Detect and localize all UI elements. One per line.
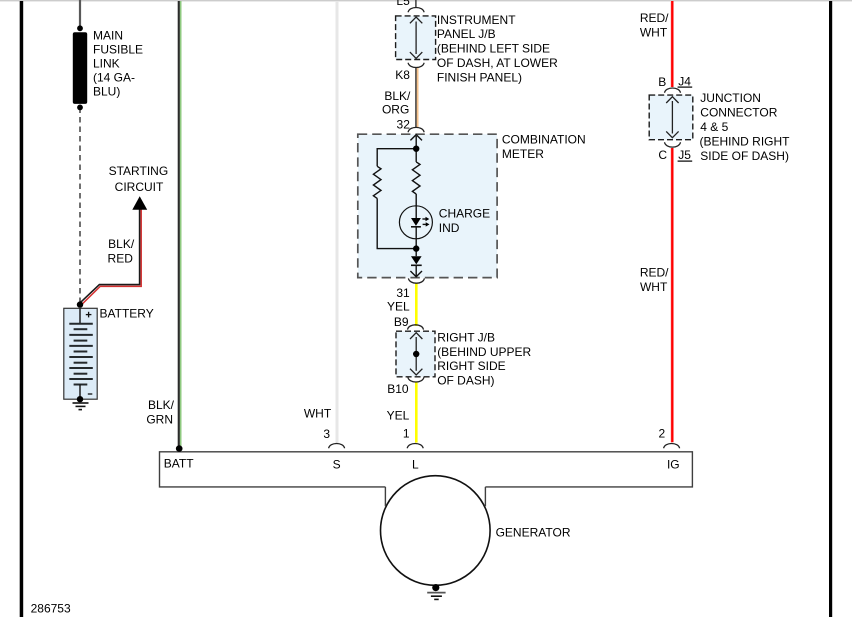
svg-text:METER: METER bbox=[502, 147, 544, 161]
svg-text:C: C bbox=[658, 148, 667, 162]
svg-text:L: L bbox=[412, 457, 419, 471]
svg-text:OF DASH): OF DASH) bbox=[437, 374, 494, 388]
svg-text:(BEHIND UPPER: (BEHIND UPPER bbox=[437, 345, 531, 359]
svg-text:BATTERY: BATTERY bbox=[100, 307, 154, 321]
svg-text:FUSIBLE: FUSIBLE bbox=[93, 43, 143, 57]
svg-text:COMBINATION: COMBINATION bbox=[502, 133, 586, 147]
svg-text:BLK/: BLK/ bbox=[148, 398, 175, 412]
svg-text:GENERATOR: GENERATOR bbox=[496, 525, 571, 539]
svg-text:J4: J4 bbox=[678, 74, 691, 88]
svg-text:FINISH PANEL): FINISH PANEL) bbox=[437, 70, 522, 84]
svg-text:B9: B9 bbox=[394, 315, 409, 329]
svg-text:YEL: YEL bbox=[387, 300, 410, 314]
svg-text:BATT: BATT bbox=[164, 457, 194, 471]
svg-text:BLU): BLU) bbox=[93, 85, 120, 99]
svg-text:RIGHT J/B: RIGHT J/B bbox=[437, 330, 495, 344]
svg-text:B10: B10 bbox=[387, 382, 409, 396]
svg-text:J5: J5 bbox=[678, 148, 691, 162]
svg-text:ORG: ORG bbox=[382, 102, 409, 116]
svg-text:PANEL J/B: PANEL J/B bbox=[437, 27, 496, 41]
svg-text:4 & 5: 4 & 5 bbox=[700, 120, 728, 134]
svg-text:WHT: WHT bbox=[304, 407, 332, 421]
svg-text:L5: L5 bbox=[396, 0, 410, 8]
svg-text:S: S bbox=[333, 457, 341, 471]
svg-text:LINK: LINK bbox=[93, 57, 120, 71]
svg-text:2: 2 bbox=[659, 426, 666, 440]
svg-text:WHT: WHT bbox=[640, 26, 668, 40]
svg-text:RED: RED bbox=[108, 251, 134, 265]
svg-text:BLK/: BLK/ bbox=[384, 89, 411, 103]
svg-text:BLK/: BLK/ bbox=[108, 237, 135, 251]
svg-text:RED/: RED/ bbox=[640, 11, 669, 25]
svg-text:(14 GA-: (14 GA- bbox=[93, 71, 135, 85]
svg-text:CIRCUIT: CIRCUIT bbox=[115, 180, 164, 194]
svg-text:OF DASH, AT LOWER: OF DASH, AT LOWER bbox=[437, 56, 558, 70]
svg-text:31: 31 bbox=[396, 286, 410, 300]
svg-text:RIGHT SIDE: RIGHT SIDE bbox=[437, 359, 505, 373]
svg-text:(BEHIND RIGHT: (BEHIND RIGHT bbox=[700, 135, 791, 149]
svg-text:MAIN: MAIN bbox=[93, 29, 123, 43]
svg-text:IND: IND bbox=[439, 221, 460, 235]
svg-text:WHT: WHT bbox=[640, 280, 668, 294]
svg-text:GRN: GRN bbox=[146, 412, 173, 426]
svg-text:32: 32 bbox=[397, 117, 411, 131]
svg-text:(BEHIND LEFT SIDE: (BEHIND LEFT SIDE bbox=[437, 42, 550, 56]
svg-text:CHARGE: CHARGE bbox=[439, 206, 490, 220]
svg-text:STARTING: STARTING bbox=[109, 164, 169, 178]
svg-text:286753: 286753 bbox=[31, 602, 71, 616]
svg-text:IG: IG bbox=[667, 457, 680, 471]
svg-text:RED/: RED/ bbox=[640, 266, 669, 280]
svg-text:3: 3 bbox=[323, 427, 330, 441]
svg-text:YEL: YEL bbox=[387, 408, 410, 422]
svg-text:JUNCTION: JUNCTION bbox=[700, 91, 761, 105]
svg-text:B: B bbox=[658, 75, 666, 89]
svg-text:K8: K8 bbox=[395, 68, 410, 82]
svg-text:INSTRUMENT: INSTRUMENT bbox=[437, 13, 516, 27]
svg-text:SIDE OF DASH): SIDE OF DASH) bbox=[700, 149, 789, 163]
svg-text:CONNECTOR: CONNECTOR bbox=[700, 105, 777, 119]
svg-text:1: 1 bbox=[403, 426, 410, 440]
